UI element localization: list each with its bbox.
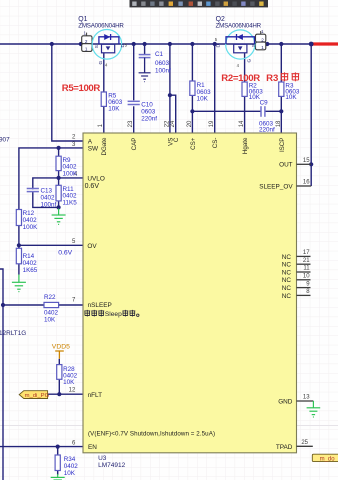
svg-text:G: G <box>98 61 104 65</box>
junction rail-CAP <box>132 42 136 46</box>
pin 9 NC stub <box>297 287 311 289</box>
svg-text:220nf: 220nf <box>259 126 275 133</box>
svg-text:VDD5: VDD5 <box>52 344 70 351</box>
transistor Q2 ZMSA006N04HR <box>215 16 266 68</box>
svg-text:CS+: CS+ <box>190 137 197 150</box>
junction R11 ground node <box>57 205 61 209</box>
resistor R1 <box>190 81 211 103</box>
pin 10 NC stub <box>297 279 311 281</box>
svg-text:ISCP: ISCP <box>279 138 286 152</box>
svg-text:100nf: 100nf <box>155 68 171 75</box>
wire main input rail <box>0 43 311 45</box>
junction rail-C1 <box>143 42 147 46</box>
wire CS+ pin 20 through R1 <box>191 44 193 133</box>
svg-text:10K: 10K <box>44 316 56 323</box>
svg-text:R5=100R: R5=100R <box>62 83 101 94</box>
ground for R11 green <box>52 209 66 225</box>
Q1 mosfet channel <box>102 44 115 53</box>
svg-text:12RLT1G: 12RLT1G <box>0 330 26 337</box>
svg-text:11K5: 11K5 <box>63 200 78 207</box>
wire C1 stub <box>144 44 146 54</box>
svg-text:1K65: 1K65 <box>23 267 38 274</box>
net label m_do <box>312 454 338 462</box>
junction C9-ISCP <box>279 109 283 113</box>
resistor R5 <box>101 92 123 113</box>
svg-text:ZMSA006N04HR: ZMSA006N04HR <box>216 22 262 29</box>
svg-text:1: 1 <box>261 29 264 34</box>
junction rail-CS- <box>213 42 217 46</box>
svg-text:CAP: CAP <box>131 138 138 151</box>
svg-text:A: A <box>88 138 93 145</box>
svg-text:NC: NC <box>282 269 292 276</box>
svg-text:R2=100R: R2=100R <box>221 73 260 84</box>
svg-text:0.6V: 0.6V <box>85 183 100 190</box>
svg-text:S: S <box>94 45 100 48</box>
junction EN-R34 <box>56 445 60 449</box>
svg-text:NC: NC <box>282 254 292 261</box>
svg-text:16: 16 <box>303 180 310 186</box>
junction rail-A <box>50 42 54 46</box>
svg-text:OUT: OUT <box>279 162 293 169</box>
svg-text:m_di_PG: m_di_PG <box>25 393 50 399</box>
svg-text:C1: C1 <box>155 51 164 58</box>
svg-text:SLEEP_OV: SLEEP_OV <box>259 183 293 190</box>
svg-text:0402: 0402 <box>23 217 38 224</box>
svg-text:1: 1 <box>83 31 86 36</box>
svg-text:24: 24 <box>170 120 176 127</box>
junction SW-R9 <box>57 146 61 150</box>
wire R28 lead <box>58 359 60 394</box>
Q2 mosfet channel <box>234 44 247 53</box>
Q2 mosfet circle <box>226 30 255 59</box>
svg-text:TPAD: TPAD <box>276 444 293 451</box>
junction rail-R1 <box>190 42 194 46</box>
pin 13 GND stub <box>297 400 314 402</box>
junction rail-OUT red <box>309 42 314 47</box>
svg-text:R34: R34 <box>64 456 76 463</box>
svg-text:18: 18 <box>276 120 282 127</box>
svg-text:0.6V: 0.6V <box>58 250 72 257</box>
wire SW net to pin 3 <box>19 148 83 245</box>
wire A branch to pin 2 <box>52 44 83 141</box>
svg-text:R22: R22 <box>44 294 56 301</box>
wire R3 to ISCP pin 18 <box>280 44 282 133</box>
svg-text:0603: 0603 <box>155 60 170 67</box>
svg-text:LM74912: LM74912 <box>98 462 125 469</box>
svg-text:2: 2 <box>261 37 264 42</box>
svg-text:23: 23 <box>128 120 134 127</box>
ground for GND pin green <box>307 401 321 417</box>
resistor R3 <box>279 82 300 101</box>
wire UVLO to pin 4 <box>59 177 83 179</box>
major grid line <box>0 425 338 427</box>
junction VS-C branch <box>168 93 172 97</box>
svg-text:ZMSA006N04HR: ZMSA006N04HR <box>78 22 124 29</box>
wire Q1 gate to DGate pin 1 <box>103 53 105 133</box>
wire CS- pin 19 <box>214 44 216 133</box>
pin 8 NC stub <box>297 294 311 296</box>
pin 21 NC stub <box>297 263 311 265</box>
svg-text:(V(ENF)<0.7V Shutdown,Ishutdow: (V(ENF)<0.7V Shutdown,Ishutdown = 2.5uA) <box>88 431 215 438</box>
resistor R12 <box>16 210 38 232</box>
svg-text:10K: 10K <box>63 379 75 386</box>
resistor R11 <box>56 185 77 206</box>
svg-text:C13: C13 <box>41 187 53 194</box>
wire C9 right to ISCP <box>265 110 281 112</box>
wire CAP pin 23 with C10 <box>133 44 135 133</box>
svg-text:nSLEEP: nSLEEP <box>88 302 112 309</box>
svg-text:C9: C9 <box>260 100 269 107</box>
svg-text:13: 13 <box>303 395 310 401</box>
wire R34 to ground <box>57 471 59 476</box>
svg-text:220nf: 220nf <box>141 116 157 123</box>
svg-text:NC: NC <box>282 277 292 284</box>
capacitor C9 <box>259 100 275 134</box>
wire left vertical net <box>0 269 3 480</box>
pin 25 TPAD stub <box>297 445 313 447</box>
wire R9 branch UVLO <box>58 148 60 208</box>
wire R14 lead to ground <box>18 245 20 274</box>
svg-text:DGate: DGate <box>101 137 108 155</box>
Q1 mosfet circle <box>92 30 122 60</box>
svg-text:11: 11 <box>303 266 310 272</box>
wire OV node to pin 5 <box>19 244 83 246</box>
svg-text:NC: NC <box>282 262 292 269</box>
pin 11 NC stub <box>297 271 311 273</box>
svg-text:25: 25 <box>301 440 308 446</box>
junction rail-Q1 package <box>79 42 83 46</box>
svg-text:10: 10 <box>303 274 310 280</box>
svg-text:OV: OV <box>87 243 97 250</box>
capacitor C10 <box>128 100 158 122</box>
svg-text:20: 20 <box>187 120 193 127</box>
svg-text:C: C <box>173 137 180 142</box>
svg-text:10K: 10K <box>285 94 297 101</box>
resistor R9 <box>56 156 78 177</box>
svg-text:R3: R3 <box>266 73 278 84</box>
svg-text:UVLO: UVLO <box>87 176 104 183</box>
svg-text:100K: 100K <box>63 170 79 177</box>
resistor R28 <box>57 365 78 386</box>
wire nFLT net pin 12 <box>48 393 83 395</box>
wire R34 branch <box>57 447 59 455</box>
svg-text:1: 1 <box>261 45 264 50</box>
junction nFLT-R28 <box>57 392 61 396</box>
pin 16 SLEEP_OV stub <box>297 185 312 187</box>
svg-text:G: G <box>247 59 253 63</box>
red highlighted output wire <box>311 42 338 45</box>
junction rail-VS <box>168 42 172 46</box>
Q2 body diode <box>226 34 255 44</box>
svg-text:1: 1 <box>85 47 88 52</box>
junction OUT pin <box>309 162 313 166</box>
svg-text:EN: EN <box>88 444 97 451</box>
wire Q2 gate through R2 to Hgate pin 14 <box>244 53 246 133</box>
svg-text:17: 17 <box>303 250 310 256</box>
ground for R34 green clipped <box>51 474 65 480</box>
power symbol VDD5 <box>52 344 70 359</box>
svg-text:S: S <box>251 44 257 47</box>
svg-text:19: 19 <box>209 120 215 127</box>
wire C pin 24 branch <box>170 95 176 133</box>
junction UVLO node <box>57 176 61 180</box>
wire VS pin 22 <box>169 44 171 133</box>
svg-text:10K: 10K <box>197 96 209 103</box>
svg-text:100K: 100K <box>23 224 39 231</box>
junction rail-Q2 package <box>265 42 269 46</box>
pin 17 NC stub <box>297 255 311 257</box>
wire EN net pin 6 <box>0 446 83 448</box>
capacitor C1 <box>139 51 171 82</box>
svg-text:R12: R12 <box>23 210 35 217</box>
Q1 package pins box <box>86 33 88 36</box>
svg-text:D: D <box>216 43 222 47</box>
svg-text:GND: GND <box>278 398 293 405</box>
resistor R22 horizontal <box>44 294 59 323</box>
IC block U3 LM74912 body <box>83 133 297 453</box>
resistor R14 <box>16 248 38 273</box>
svg-text:U3: U3 <box>98 455 107 462</box>
svg-text:14: 14 <box>239 120 245 127</box>
svg-text:0402: 0402 <box>44 309 59 316</box>
svg-text:10K: 10K <box>64 470 76 477</box>
svg-text:Sleep: Sleep <box>105 311 122 318</box>
svg-text:21: 21 <box>303 258 310 264</box>
ground for R14 green <box>12 275 26 292</box>
svg-text:10K: 10K <box>108 106 120 113</box>
svg-text:m_do: m_do <box>320 456 336 462</box>
capacitor C13 <box>27 187 57 208</box>
junction nSLEEP left <box>1 303 5 307</box>
svg-text:15: 15 <box>303 158 310 164</box>
wire OUT vertical to SLEEP_OV <box>310 44 312 186</box>
svg-text:12: 12 <box>69 388 76 394</box>
transistor Q1 ZMSA006N04HR <box>78 16 127 68</box>
svg-text:0603: 0603 <box>141 109 156 116</box>
svg-text:Hgate: Hgate <box>242 137 249 154</box>
svg-text:907: 907 <box>0 137 10 144</box>
svg-text:SW: SW <box>88 146 99 153</box>
svg-text:C10: C10 <box>141 102 153 109</box>
ground for C1 <box>139 73 151 82</box>
wire nSLEEP to pin 7 <box>3 304 83 306</box>
net label flag m_di_PG <box>19 391 49 399</box>
nSLEEP chinese note <box>84 310 104 317</box>
junction R1-C9 <box>190 109 194 113</box>
svg-text:NC: NC <box>282 285 292 292</box>
toolbar fragment overlay <box>130 0 269 7</box>
svg-text:nFLT: nFLT <box>88 392 103 399</box>
junction rail-R3 <box>279 42 283 46</box>
svg-text:CS-: CS- <box>212 138 219 149</box>
resistor R34 <box>55 455 78 477</box>
wire C13 loop <box>33 178 59 208</box>
svg-text:100nf: 100nf <box>41 201 57 208</box>
wire ISCP sense link R1 to C9 <box>192 110 260 112</box>
pin 15 OUT stub <box>297 163 312 165</box>
svg-text:NC: NC <box>282 293 292 300</box>
Q1 body diode <box>99 34 119 44</box>
resistor R2 <box>242 82 263 101</box>
svg-text:0402: 0402 <box>64 463 79 470</box>
svg-text:2: 2 <box>85 39 88 44</box>
junction OV node <box>17 243 21 247</box>
Q2 package pins box <box>260 31 262 34</box>
